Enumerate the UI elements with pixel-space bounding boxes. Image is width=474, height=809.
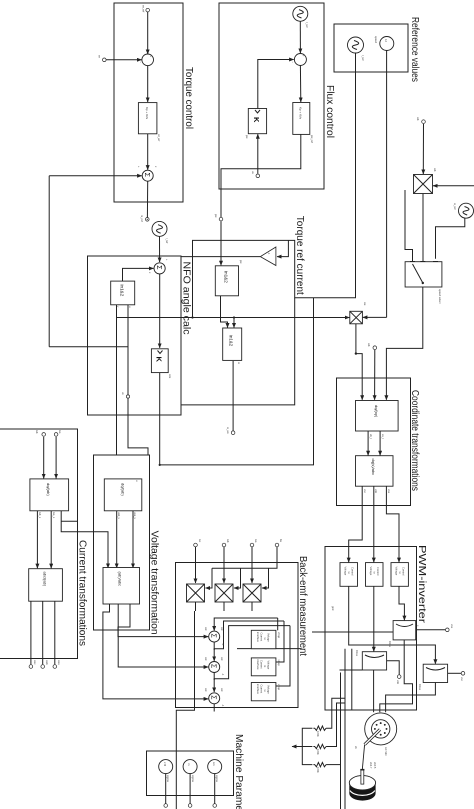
svg-text:in1&2: in1&2 (224, 271, 229, 283)
wire back-emf input bus (212, 547, 277, 568)
svg-text:speed: speed (374, 36, 378, 44)
svg-text:isa: isa (58, 430, 62, 434)
wire inverter rail 2 (237, 648, 302, 650)
wire torque-ref branch right + down to NFO (181, 298, 295, 405)
in1&2 block 4 (223, 328, 242, 364)
svg-text:Back-emf measurement: Back-emf measurement (297, 556, 308, 656)
svg-text:usb_L: usb_L (117, 512, 121, 520)
wire nfo sum bottom input (123, 268, 154, 281)
wire X1 out to switch (422, 194, 424, 261)
svg-text:psi: psi (214, 214, 218, 218)
svg-text:(ab)/abc: (ab)/abc (118, 572, 123, 587)
input port dot wr feedback (98, 55, 107, 62)
wire nfo sum to K (159, 274, 161, 348)
svg-text:wd: wd (220, 657, 224, 661)
coord transform block 1 (356, 401, 399, 440)
svg-text:isb: isb (35, 430, 39, 434)
coord transform block 2 (356, 456, 394, 494)
switch block (405, 262, 442, 304)
wire gate2 out to motor (373, 670, 375, 712)
svg-text:wd: wd (204, 627, 208, 631)
svg-text:w: w (237, 362, 240, 364)
resistor 3 (313, 762, 326, 773)
svg-text:isb: isb (226, 539, 230, 543)
wire in12d out to dot (232, 361, 234, 431)
gate block 2 (355, 650, 387, 670)
svg-text:isb_L: isb_L (38, 512, 42, 519)
wire theta bus top to block (233, 318, 235, 328)
wire W3 vertical branch (49, 346, 128, 348)
volt transform block 2 (103, 568, 140, 605)
box Voltage transformation (94, 455, 160, 635)
machine param circle 3 (159, 760, 173, 783)
gain triangle (260, 247, 276, 266)
wire ref r_ref long path (193, 53, 356, 318)
wire torque sum2 bottom feedback riser (49, 175, 142, 177)
flux sine source (293, 6, 309, 27)
wire flux PI out down right to dot (221, 134, 301, 217)
PI block flux (293, 103, 314, 144)
svg-text:te_ref: te_ref (140, 215, 144, 222)
wire volt out1 riser (118, 601, 208, 637)
wire sigma3 feed (214, 626, 290, 692)
wire in12a outB (128, 305, 148, 455)
gate block 3 (418, 664, 448, 690)
wire sigma2 feed (214, 621, 284, 661)
svg-text:vsb: vsb (396, 680, 400, 685)
wire current blocks link1 (50, 511, 52, 568)
sum torque2 sigma (137, 166, 157, 181)
svg-text:Voltage: Voltage (344, 567, 348, 576)
in1&2 block 1 (111, 281, 135, 308)
wire wb dot to X1 (422, 124, 424, 174)
voltage interface block 2 (251, 658, 281, 676)
wire current blocks link2 (36, 511, 38, 568)
svg-text:xa_r: xa_r (381, 434, 385, 439)
wire volt blocks link1 (132, 511, 134, 568)
wire back-emf bottom long (176, 611, 194, 809)
wire current in isa (55, 437, 57, 479)
svg-text:100k: 100k (316, 749, 320, 755)
svg-text:wb: wb (367, 343, 371, 347)
voltage interface block 3 (251, 683, 281, 701)
wire branch to gain triangle (277, 240, 288, 256)
wire theta jog current to voltage (61, 511, 108, 568)
PI block torque (138, 103, 161, 142)
wire X2 out to coord block (356, 324, 362, 400)
svg-text:w_ref: w_ref (453, 203, 457, 210)
svg-text:K: K (252, 117, 261, 123)
wire volt out2 riser (118, 601, 208, 667)
resistor 1 (313, 726, 326, 737)
junction dot torque out (147, 219, 148, 220)
machine param out dots (213, 804, 217, 808)
svg-text:usa_L: usa_L (133, 512, 137, 520)
wire inverter rail 1 (312, 631, 393, 633)
wire coord link1 (379, 431, 381, 455)
svg-text:in1&2: in1&2 (120, 285, 125, 297)
svg-text:Voltage: Voltage (267, 633, 271, 642)
svg-text:sh0.5: sh0.5 (373, 762, 377, 769)
svg-text:speed select: speed select (438, 289, 442, 304)
wire current out1 (54, 601, 56, 664)
svg-text:interface: interface (256, 684, 260, 695)
wire in12c to in12d (221, 296, 228, 328)
svg-text:interface: interface (256, 660, 260, 671)
input port wr_ref (142, 5, 150, 12)
wire machine param outs (214, 774, 216, 804)
svg-text:gnd: gnd (331, 606, 335, 611)
volt transform block 1 (104, 479, 142, 520)
voltage interface block 1 (251, 630, 281, 648)
svg-text:Kp + Ki/s: Kp + Ki/s (145, 107, 149, 120)
wire phase bus1 (351, 649, 353, 711)
box Torque control (114, 3, 194, 202)
wire resistor bottoms (302, 728, 312, 764)
svg-text:Drive: Drive (418, 684, 422, 691)
sum sigma3 (204, 688, 225, 707)
box Coordinate transformations (337, 378, 421, 505)
svg-text:wd: wd (204, 688, 208, 692)
svg-text:wd: wd (204, 657, 208, 661)
svg-text:vCap: vCap (277, 660, 281, 667)
svg-text:vCap: vCap (277, 684, 281, 691)
box Current transformations (0, 429, 88, 659)
box Machine Parameters (146, 734, 244, 809)
svg-text:wb: wb (433, 168, 437, 172)
top sine source (453, 203, 474, 218)
svg-text:we: we (363, 302, 366, 306)
svg-text:in1&2: in1&2 (229, 335, 234, 347)
probe dots pwm (446, 624, 454, 632)
svg-text:vsa: vsa (450, 624, 453, 629)
wire volt blocks link2 (116, 511, 118, 568)
wire speed branch into multiplier X2 (363, 316, 387, 318)
port dot on wireB (121, 392, 130, 398)
output port dot torque (140, 215, 149, 222)
svg-text:wre: wre (168, 374, 172, 379)
wire torque feedback in (bottom) (106, 59, 141, 61)
svg-text:K: K (155, 357, 164, 363)
wire current in isb (43, 437, 45, 479)
box Reference values (334, 17, 420, 82)
wire resistor riser1 hook (326, 698, 345, 728)
svg-text:100k: 100k (316, 767, 320, 773)
wire sigma outs (213, 642, 215, 650)
svg-text:Flux control: Flux control (324, 85, 335, 138)
wire gate3 probe (448, 672, 461, 674)
current transform block 1 (30, 479, 69, 519)
svg-text:Current transformations: Current transformations (77, 540, 88, 646)
svg-text:Torque control: Torque control (183, 67, 194, 129)
multiplier Xb (215, 584, 233, 602)
back-emf port dots (275, 539, 283, 547)
gate block 1 (388, 621, 419, 648)
wire theta bus vertical (117, 317, 350, 319)
svg-text:wd: wd (220, 627, 224, 631)
svg-text:sigma: sigma (215, 775, 219, 782)
wire torque PI to sum2 (147, 134, 149, 170)
port dot w (367, 343, 377, 350)
svg-text:Σ: Σ (155, 265, 162, 270)
wire switch input1 (405, 190, 413, 261)
ref circle speed (clock) (374, 36, 394, 51)
port dot wb (416, 117, 425, 123)
load cylinder (349, 762, 377, 801)
svg-text:vsb: vsb (374, 489, 378, 494)
wire dot to in1&2 block (220, 221, 222, 265)
svg-text:wsb: wsb (45, 660, 49, 665)
wire vblock2 out hook (276, 621, 284, 662)
nfo sum sigma (148, 259, 168, 274)
wire vblock3 out hook (276, 626, 290, 686)
svg-text:vCap: vCap (277, 632, 281, 639)
current transform block 2 (29, 569, 63, 602)
svg-text:Coordinate transformations: Coordinate transformations (409, 390, 420, 491)
svg-text:w_we: w_we (226, 427, 229, 434)
wire cv3 to gate3 (349, 586, 436, 664)
resistor 2 (313, 744, 326, 755)
K block flux estimator (245, 109, 267, 139)
wire nfo K out to W1 junction (159, 373, 161, 465)
sum sigma1 (204, 627, 225, 646)
svg-text:Current: Current (260, 633, 264, 642)
wire gate3 out to motor (386, 683, 436, 713)
wire X out stubs (251, 602, 253, 611)
sum flux (292, 54, 306, 66)
wire flux sum to PI (299, 66, 301, 103)
svg-text:Current: Current (260, 660, 264, 669)
wire torque out to dot (146, 181, 148, 217)
svg-text:wr_err: wr_err (157, 134, 161, 141)
sum sigma2 (204, 657, 225, 676)
box Flux control (219, 3, 335, 189)
svg-text:Voltage: Voltage (395, 567, 399, 576)
svg-text:dq/(ab): dq/(ab) (121, 483, 126, 496)
svg-text:AC Mot: AC Mot (384, 747, 388, 756)
wire neutral arrow (292, 746, 302, 748)
svg-text:t_ref: t_ref (165, 238, 169, 244)
svg-text:r_ref: r_ref (305, 22, 309, 28)
wire back-emf dots to X blocks (251, 547, 253, 583)
wire gate2 to bus stub (340, 669, 363, 671)
wire resistor riser3 hook (326, 764, 340, 766)
wire coord out3 to cv3 (349, 486, 363, 562)
svg-text:xb_r: xb_r (369, 434, 373, 439)
port dot flux out (214, 214, 223, 221)
svg-text:Reference values: Reference values (409, 17, 420, 82)
motor shaft (365, 730, 380, 745)
svg-text:Torque ref current: Torque ref current (294, 216, 305, 295)
wire current out3 (30, 601, 32, 664)
svg-text:wd: wd (220, 688, 224, 692)
wire cv1 to gate2 (373, 586, 375, 651)
wire resistor riser2 hook (326, 703, 345, 747)
svg-text:sigma: sigma (191, 775, 195, 782)
wire gain triangle out (181, 256, 260, 258)
svg-text:Kp + Ki/s: Kp + Ki/s (299, 107, 303, 120)
svg-text:r_ref: r_ref (361, 55, 365, 61)
wire flux sine to sum (299, 21, 301, 53)
machine param circle 1 (208, 760, 222, 783)
ref circle r_ref (signal gen) (348, 37, 366, 61)
cv block 2 (top) (391, 563, 408, 587)
nfo sine source (152, 221, 169, 243)
svg-text:abc/(ab): abc/(ab) (43, 572, 48, 587)
svg-text:sigma: sigma (166, 775, 170, 782)
svg-text:wr: wr (98, 55, 102, 58)
svg-text:dq/(xy): dq/(xy) (374, 405, 379, 418)
wire switch out (386, 287, 422, 400)
wire in12a outA (116, 305, 118, 455)
wire ref speed long (386, 51, 388, 318)
port dot theta out (226, 427, 235, 435)
svg-text:wb: wb (416, 117, 420, 121)
wire gate1 probe (416, 629, 446, 631)
box PWM-inverter (325, 545, 427, 710)
wire flux K input from dot (257, 134, 259, 173)
wire stub at box edge (61, 520, 77, 522)
cv block 3 (bottom) (340, 563, 358, 587)
machine param circle 2 (183, 760, 197, 783)
multiplier Xa (243, 584, 261, 602)
svg-text:Voltage: Voltage (369, 567, 373, 576)
port dots current inputs (54, 430, 62, 436)
svg-text:100k: 100k (316, 731, 320, 737)
multiplier X1 (414, 168, 438, 194)
svg-text:vsa: vsa (387, 489, 390, 494)
svg-text:Σ: Σ (210, 634, 217, 639)
wire current out2 (42, 601, 44, 664)
svg-text:psi_ref: psi_ref (310, 135, 314, 143)
svg-text:isa_L: isa_L (52, 512, 56, 519)
box Back-emf measurement (176, 556, 309, 708)
svg-text:Drive: Drive (355, 650, 359, 657)
wire phase bus2 (344, 649, 346, 809)
wire X1 top input (433, 185, 474, 187)
svg-text:Voltage transformation: Voltage transformation (149, 531, 160, 635)
svg-text:NFO angle calc: NFO angle calc (181, 262, 192, 335)
svg-text:dq/(ab): dq/(ab) (46, 483, 51, 496)
svg-text:Σ: Σ (210, 695, 217, 700)
svg-text:sh2.7: sh2.7 (369, 762, 373, 769)
svg-text:wsa: wsa (57, 660, 60, 665)
port dots current outputs (53, 660, 60, 668)
svg-text:wr_ref: wr_ref (142, 5, 146, 12)
in1&2 block 3 (215, 260, 243, 296)
svg-text:Σ: Σ (143, 173, 150, 178)
wire gate2 probe (387, 661, 400, 675)
multiplier Xc (187, 584, 205, 602)
port dot flux K input (251, 171, 260, 178)
motor (354, 713, 397, 770)
junction dot W1 (159, 464, 161, 466)
svg-text:psi: psi (245, 135, 249, 139)
svg-text:Machine Parameters: Machine Parameters (233, 734, 244, 809)
svg-text:dq(s)/abc: dq(s)/abc (371, 459, 376, 476)
K block nfo (151, 349, 172, 379)
wire torque ref in to sum1 (147, 12, 149, 54)
wire phase bus3 (340, 673, 342, 809)
wire coord out2 to cv1 (373, 486, 375, 562)
box NFO angle calc (87, 256, 191, 415)
wire nfo sine to sum (159, 236, 161, 262)
svg-text:isa: isa (254, 539, 258, 543)
svg-text:interface: interface (256, 632, 260, 643)
wire coord link2 (367, 431, 369, 455)
wire cv2 to gate1 (399, 586, 404, 620)
svg-text:Σ: Σ (210, 664, 217, 669)
svg-text:Drive: Drive (388, 641, 392, 648)
cv block 1 (mid) (366, 563, 384, 587)
wire gate1 out to motor (380, 640, 413, 712)
wire vblock1 out hook (277, 618, 279, 630)
wire coord out1 to cv2 (386, 486, 399, 562)
wire flux K feedback (258, 60, 294, 109)
wire top sine to switch (436, 218, 465, 259)
svg-text:Voltage: Voltage (267, 685, 271, 694)
wire W1 torque-ref-current (160, 298, 314, 465)
wire torque sum1 to PI (147, 66, 149, 102)
wire W3 horizontal (48, 176, 50, 347)
svg-text:psi: psi (239, 260, 243, 264)
svg-text:Voltage: Voltage (267, 661, 271, 670)
wire volt out3 riser (103, 601, 208, 699)
wire sigma1 feed (214, 618, 278, 631)
sum torque1 (140, 54, 154, 66)
svg-text:PWM-inverter: PWM-inverter (416, 545, 427, 624)
multiplier X2 (350, 302, 366, 324)
wire w dot to coord block (374, 350, 376, 400)
svg-text:Current: Current (260, 685, 264, 694)
svg-text:Lm: Lm (212, 762, 216, 766)
svg-text:wsc: wsc (33, 660, 36, 665)
svg-text:J M: J M (163, 762, 167, 766)
